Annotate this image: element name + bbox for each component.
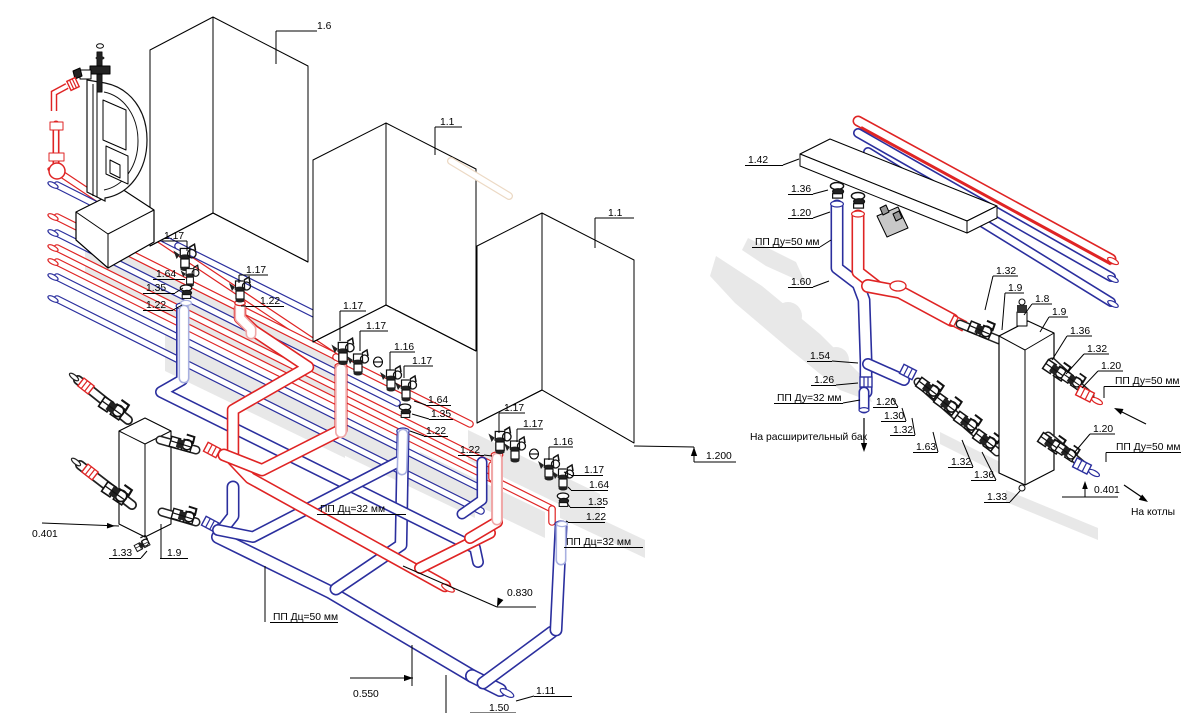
shadow band center floor b xyxy=(285,392,475,518)
chain valve 2 xyxy=(931,386,965,419)
blue knot at main start xyxy=(222,487,233,530)
long red pipe thick lower edge xyxy=(861,128,1111,265)
valve 1.16 b2c xyxy=(380,366,402,392)
cap 1.22 b1 xyxy=(181,300,192,305)
arrow to expansion tank xyxy=(863,418,865,448)
svg-text:0.550: 0.550 xyxy=(353,689,379,700)
svg-text:На котлы: На котлы xyxy=(1131,507,1175,518)
shadow under separator xyxy=(1006,490,1098,540)
long blue pipe 2 xyxy=(868,152,1111,302)
HX assembly upper left pipe xyxy=(78,380,128,420)
shadow band under boiler unit xyxy=(85,235,335,398)
svg-text:1.17: 1.17 xyxy=(343,301,363,312)
long pipe red 3 end cap xyxy=(47,212,59,221)
bolt 1 xyxy=(880,205,889,215)
boiler1 front edge xyxy=(212,17,214,213)
long pipe red 3 xyxy=(57,217,333,355)
pipe red coupling to separator xyxy=(960,324,999,340)
svg-text:1.22: 1.22 xyxy=(426,426,446,437)
red fixture coupling xyxy=(67,78,79,91)
HX valve upper right xyxy=(166,425,200,459)
long pipe blue 8 xyxy=(57,299,481,511)
svg-text:ПП Ду=50 мм: ПП Ду=50 мм xyxy=(1116,442,1181,453)
heat exchanger 1.9 body xyxy=(119,418,171,537)
shadow band center floor c xyxy=(420,452,545,538)
long pipe red 6 end cap xyxy=(47,257,59,266)
svg-text:1.54: 1.54 xyxy=(810,351,830,362)
svg-text:1.32: 1.32 xyxy=(893,425,913,436)
svg-text:1.20: 1.20 xyxy=(791,208,811,219)
svg-text:1.36: 1.36 xyxy=(791,184,811,195)
red flange bottom xyxy=(49,153,64,161)
rounded base box xyxy=(76,189,154,268)
cap 1.22 b3 xyxy=(557,521,568,526)
valve 1.16 b3c xyxy=(538,455,560,481)
fittings 1.64/1.35 b1 xyxy=(180,285,191,298)
thin pipe end stub red 6 xyxy=(548,509,556,522)
blue main stub to cap xyxy=(472,676,500,690)
base box top edge l xyxy=(76,212,108,234)
svg-text:1.35: 1.35 xyxy=(588,497,608,508)
stub fitting xyxy=(80,70,91,79)
blue stub to expansion tank xyxy=(859,392,870,408)
svg-text:0.401: 0.401 xyxy=(1094,485,1120,496)
long red pipe xyxy=(858,121,1111,259)
long pipe blue 8 end cap xyxy=(47,294,59,303)
svg-text:ПП Дц=32 мм: ПП Дц=32 мм xyxy=(320,504,385,515)
black tee xyxy=(90,66,110,74)
svg-text:1.50: 1.50 xyxy=(489,703,509,713)
blue riser from slab xyxy=(837,206,866,392)
blue branch riser3 xyxy=(483,632,552,683)
arrow in top right xyxy=(1116,409,1146,424)
svg-text:1.17: 1.17 xyxy=(246,265,266,276)
long blue pipe 1 xyxy=(858,133,1111,277)
long pipe red 1 cont xyxy=(336,357,470,424)
blue riser slab cap 1.20 xyxy=(831,201,844,207)
svg-text:1.9: 1.9 xyxy=(167,548,182,559)
blue main end cap xyxy=(499,687,515,699)
blue coupling at HX xyxy=(201,516,218,531)
red riser3a (boiler3) xyxy=(491,458,503,522)
dimension 0.830 xyxy=(403,566,497,607)
blue tee branch xyxy=(868,364,904,380)
svg-text:1.20: 1.20 xyxy=(876,397,896,408)
blue fitting 1.36 xyxy=(830,182,843,198)
shadow band under boiler 3 xyxy=(468,430,600,524)
svg-text:1.64: 1.64 xyxy=(428,395,448,406)
svg-text:1.33: 1.33 xyxy=(987,492,1007,503)
blue HX line run A xyxy=(218,462,398,537)
long pipe blue 4 xyxy=(57,233,397,403)
theta symbol b2 xyxy=(374,357,383,367)
valve chain underlay pipe xyxy=(918,382,997,452)
boiler2 bottom right edge xyxy=(386,305,476,351)
blue riser c top cap xyxy=(397,428,409,434)
blue cascade elbows xyxy=(462,462,482,514)
red stub to riser3a xyxy=(420,533,490,568)
svg-text:1.32: 1.32 xyxy=(996,266,1016,277)
boiler1 bottom left edge xyxy=(150,213,213,246)
red riser slab cap 1.20 xyxy=(852,211,865,217)
valve 1.17 b2d xyxy=(395,376,417,402)
long pipe blue 2 xyxy=(57,185,178,246)
pale blue riser boiler2b xyxy=(402,434,403,470)
svg-text:1.60: 1.60 xyxy=(791,277,811,288)
wall unit panel 1 xyxy=(103,100,126,150)
red riser3a top cap xyxy=(491,452,503,458)
svg-text:ПП Дц=32 мм: ПП Дц=32 мм xyxy=(566,537,631,548)
valve 1.17 b3a xyxy=(488,427,511,454)
red ball xyxy=(49,163,65,179)
svg-text:1.16: 1.16 xyxy=(394,342,414,353)
valve 1.17 b1 xyxy=(173,244,196,271)
blue riser to boiler3 xyxy=(556,527,561,630)
long pipe blue 2 cont xyxy=(178,246,336,325)
long pipe blue 7 end cap xyxy=(47,272,59,281)
slab right face xyxy=(967,206,997,233)
svg-text:1.17: 1.17 xyxy=(504,403,524,414)
red riser2a top cap xyxy=(335,363,347,369)
valve 1.17 b2b xyxy=(347,350,369,376)
svg-text:1.9: 1.9 xyxy=(1052,307,1067,318)
red riser from slab xyxy=(858,216,876,286)
wall unit vertical line 2 xyxy=(96,86,98,197)
svg-text:1.20: 1.20 xyxy=(1093,424,1113,435)
svg-text:0.401: 0.401 xyxy=(32,529,58,540)
valve 1.17 b3b xyxy=(504,437,526,463)
boiler box 1.1 (right) xyxy=(477,213,634,443)
dimension 1.200 xyxy=(634,446,694,447)
red coupling 1.20 right xyxy=(949,315,966,330)
svg-text:1.64: 1.64 xyxy=(156,269,176,280)
blue run B from boiler1 riser xyxy=(161,310,478,562)
separator right top valve xyxy=(1040,352,1074,386)
HX valve lower left xyxy=(99,474,136,511)
long pipe blue 4 end cap xyxy=(47,228,59,237)
HX assembly upper right xyxy=(160,440,196,450)
valve top left of separator 1.32 xyxy=(964,311,999,346)
svg-text:1.8: 1.8 xyxy=(1035,294,1050,305)
svg-text:1.36: 1.36 xyxy=(1070,326,1090,337)
svg-text:1.9: 1.9 xyxy=(1008,283,1023,294)
svg-text:1.32: 1.32 xyxy=(951,457,971,468)
boiler1 bottom right edge xyxy=(213,213,308,262)
svg-text:1.63: 1.63 xyxy=(916,442,936,453)
red flange top xyxy=(50,122,63,130)
hydraulic separator body 1.9 xyxy=(999,321,1054,485)
boiler3 bottom left edge xyxy=(477,390,542,423)
separator drain 1.33 xyxy=(1019,485,1025,491)
mounting slab 1.42 xyxy=(800,139,997,221)
svg-text:1.11: 1.11 xyxy=(536,686,556,697)
separator front edge xyxy=(1024,350,1026,485)
long pipe red 5 xyxy=(57,248,492,465)
valve lower b1 xyxy=(181,265,199,287)
long pipe red 6 xyxy=(57,262,552,509)
svg-text:На расширительный бак: На расширительный бак xyxy=(750,431,868,443)
thin pipe end stub red 5 xyxy=(488,465,496,478)
chain valve 1 xyxy=(913,370,947,403)
red coupling D50 out xyxy=(1076,386,1095,402)
svg-text:1.33: 1.33 xyxy=(112,548,132,559)
slab front face xyxy=(800,154,967,233)
svg-text:0.830: 0.830 xyxy=(507,588,533,599)
svg-text:1.17: 1.17 xyxy=(523,419,543,430)
long pipe blue 2 end cap xyxy=(47,180,59,189)
separator right bottom valve xyxy=(1035,425,1069,459)
svg-text:ПП Дц=50 мм: ПП Дц=50 мм xyxy=(273,612,338,623)
svg-text:1.17: 1.17 xyxy=(412,356,432,367)
svg-text:1.22: 1.22 xyxy=(260,296,280,307)
wall boiler unit body xyxy=(87,80,147,201)
svg-text:1.42: 1.42 xyxy=(748,155,768,166)
leader PP D50 xyxy=(264,566,266,622)
boiler2 front edge xyxy=(385,123,387,305)
HX ll red coupling xyxy=(82,464,98,480)
svg-text:1.1: 1.1 xyxy=(608,208,623,219)
svg-text:1.16: 1.16 xyxy=(553,437,573,448)
HX valve upper left xyxy=(96,389,133,426)
theta symbol b3 xyxy=(530,449,539,459)
separator right bottom port pipe xyxy=(1048,436,1086,468)
shadow patch under riser3 xyxy=(560,500,645,558)
svg-text:1.22: 1.22 xyxy=(460,445,480,456)
blue riser3 top cap xyxy=(555,521,567,527)
pale blue riser boiler1 xyxy=(179,310,190,378)
svg-text:1.20: 1.20 xyxy=(1101,361,1121,372)
long pipe red 1 xyxy=(57,171,336,357)
air vent 1.8 xyxy=(1017,312,1027,326)
svg-text:1.35: 1.35 xyxy=(146,283,166,294)
dimension 0.401 right xyxy=(1062,496,1118,498)
chain valve 3 xyxy=(951,404,985,437)
HX assembly lower left pipe xyxy=(80,465,132,505)
bracket plate on slab xyxy=(877,207,908,237)
svg-text:1.35: 1.35 xyxy=(431,409,451,420)
shadow band center floor a xyxy=(165,335,345,458)
boiler box 1.1 (middle) xyxy=(313,123,476,351)
svg-text:1.26: 1.26 xyxy=(814,375,834,386)
blue coupling 1.20/1.30 xyxy=(899,364,916,379)
dimension 0.401 left xyxy=(42,523,119,526)
pale red riser boiler3 xyxy=(492,458,503,520)
fittings 1.64/1.35 b2 xyxy=(399,404,410,417)
stub nut xyxy=(73,68,82,79)
base box front edge xyxy=(107,234,109,268)
svg-text:1.17: 1.17 xyxy=(164,231,184,242)
fittings 1.64/1.35 b3 xyxy=(557,493,568,506)
red vertical pipe fixture xyxy=(53,124,60,166)
valve 1.17 b1b xyxy=(229,277,251,303)
pale red riser boiler2 xyxy=(335,369,347,432)
HX valve lower right xyxy=(168,497,202,531)
svg-text:1.17: 1.17 xyxy=(584,465,604,476)
svg-text:1.1: 1.1 xyxy=(440,117,455,128)
wall unit inner curve xyxy=(104,92,138,190)
red bottom run D32 from cluster1b xyxy=(233,308,445,586)
red c1b cap xyxy=(235,300,245,305)
long pipe red 1 end cap xyxy=(47,166,59,175)
svg-text:ПП Ду=50 мм: ПП Ду=50 мм xyxy=(1115,376,1180,387)
bolt 2 xyxy=(893,211,902,221)
red fitting 1.36 slab xyxy=(851,192,864,208)
svg-text:1.17: 1.17 xyxy=(366,321,386,332)
blue riser c (from boiler2) xyxy=(336,434,403,589)
blue coupling D50 in xyxy=(1073,458,1092,474)
black pipe top xyxy=(97,52,102,92)
HX front edge xyxy=(144,444,146,537)
HX assembly lower right xyxy=(162,512,196,522)
svg-text:ПП Ду=50 мм: ПП Ду=50 мм xyxy=(755,237,820,248)
red riser 2a vertical xyxy=(224,369,341,470)
arrow to boilers xyxy=(1124,485,1146,500)
dimension 0.550 xyxy=(350,677,413,679)
boiler2 bottom left edge xyxy=(313,305,386,342)
wall unit panel 3 xyxy=(110,160,120,178)
chain valve 4 xyxy=(970,422,1004,455)
svg-text:1.6: 1.6 xyxy=(317,21,332,32)
pale blue riser boiler3b xyxy=(556,527,567,560)
red elbow fixture xyxy=(54,86,67,111)
long pipe red 5 end cap xyxy=(47,243,59,252)
dimension 1.50 bottom xyxy=(445,675,447,713)
HX ul red coupling xyxy=(78,378,94,394)
base box top edge r xyxy=(108,210,154,234)
red riser cluster1b xyxy=(240,305,251,334)
boiler3 front edge xyxy=(541,213,543,390)
right scene shadow blob xyxy=(710,256,872,402)
svg-text:1.22: 1.22 xyxy=(146,300,166,311)
red riser3a elbow xyxy=(470,522,497,538)
HX drain valve 1.33 xyxy=(134,535,150,551)
red tee and horizontal red pipe xyxy=(868,286,952,320)
valve 1.17 b2a xyxy=(331,338,354,365)
svg-text:1.200: 1.200 xyxy=(706,451,732,462)
blue riser1 top cap xyxy=(176,303,188,309)
svg-text:1.64: 1.64 xyxy=(589,480,609,491)
svg-text:1.30: 1.30 xyxy=(884,411,904,422)
separator right top port pipe xyxy=(1052,362,1090,396)
faint tan pipe near boiler2 xyxy=(451,161,509,196)
blue main pipe D50 xyxy=(218,537,472,676)
svg-text:ПП Ду=32 мм: ПП Ду=32 мм xyxy=(777,393,842,404)
boiler box 1.6 xyxy=(150,17,308,262)
red run end cap xyxy=(441,582,456,594)
long pipe blue 7 xyxy=(57,277,478,487)
blue coupling 1.26 xyxy=(860,377,872,387)
red coupling at HX xyxy=(203,442,220,457)
svg-text:1.22: 1.22 xyxy=(586,512,606,523)
valve 1.17 b3d xyxy=(552,465,574,491)
svg-text:1.32: 1.32 xyxy=(1087,344,1107,355)
wall unit vertical line 1 xyxy=(92,84,94,196)
boiler3 bottom right edge xyxy=(542,390,634,443)
wall unit panel 2 xyxy=(106,146,128,184)
